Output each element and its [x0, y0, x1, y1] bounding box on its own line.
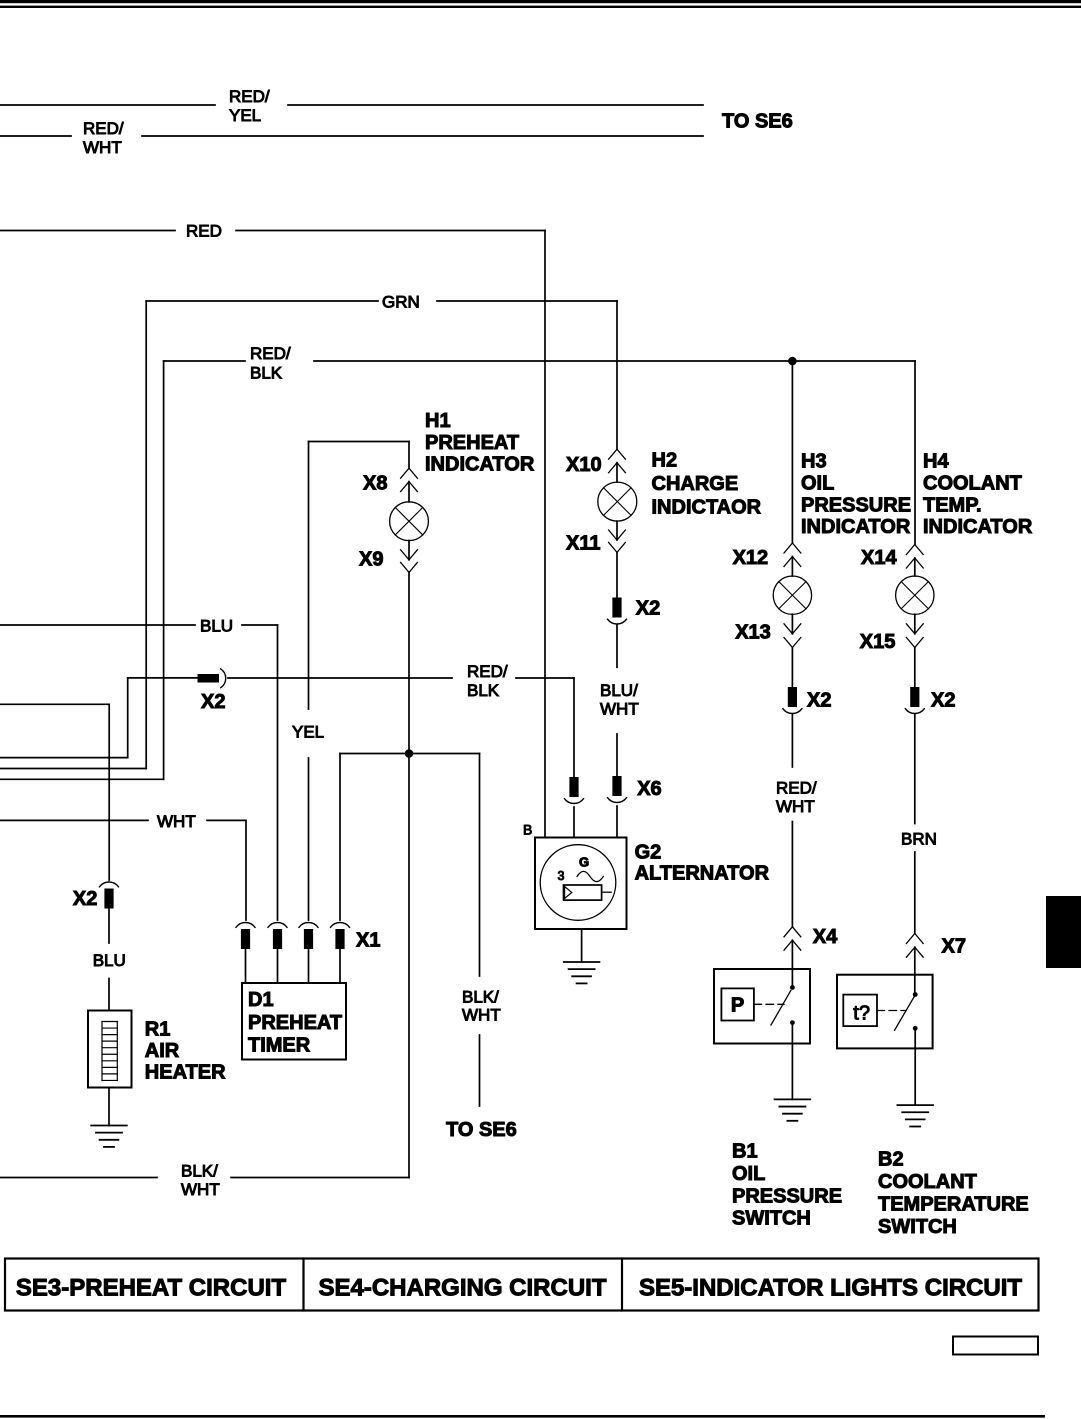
svg-text:X2: X2	[73, 888, 97, 910]
svg-text:COOLANT: COOLANT	[878, 1171, 977, 1193]
svg-text:3: 3	[558, 869, 565, 883]
svg-text:WHT: WHT	[776, 797, 815, 816]
svg-text:G2: G2	[635, 842, 662, 864]
svg-text:ALTERNATOR: ALTERNATOR	[635, 863, 770, 885]
svg-text:TO SE6: TO SE6	[446, 1119, 517, 1141]
svg-text:WHT: WHT	[462, 1006, 501, 1025]
svg-text:BLK/: BLK/	[181, 1162, 218, 1181]
svg-text:CHARGE: CHARGE	[652, 473, 739, 495]
svg-text:SE3-PREHEAT CIRCUIT: SE3-PREHEAT CIRCUIT	[16, 1275, 287, 1302]
svg-text:PRESSURE: PRESSURE	[801, 495, 911, 517]
svg-text:R1: R1	[145, 1019, 171, 1041]
svg-text:BLU: BLU	[93, 951, 126, 970]
svg-text:WHT: WHT	[83, 138, 122, 157]
svg-text:B1: B1	[732, 1141, 758, 1163]
svg-text:INDICTAOR: INDICTAOR	[652, 497, 762, 519]
svg-text:X7: X7	[942, 936, 966, 958]
svg-text:X14: X14	[861, 547, 897, 569]
svg-text:BRN: BRN	[901, 830, 937, 849]
svg-text:G: G	[579, 855, 589, 870]
svg-text:X4: X4	[813, 926, 838, 948]
svg-text:RED: RED	[186, 222, 222, 241]
svg-text:X2: X2	[807, 690, 831, 712]
svg-text:WHT: WHT	[600, 700, 639, 719]
svg-text:X15: X15	[860, 631, 896, 653]
svg-text:X10: X10	[566, 454, 602, 476]
svg-text:BLK/: BLK/	[462, 988, 499, 1007]
svg-text:X8: X8	[363, 473, 387, 495]
svg-text:TO SE6: TO SE6	[722, 111, 793, 133]
svg-text:TEMPERATURE: TEMPERATURE	[878, 1194, 1029, 1216]
svg-text:YEL: YEL	[292, 723, 324, 742]
svg-text:TIMER: TIMER	[248, 1035, 311, 1057]
svg-text:X6: X6	[637, 778, 661, 800]
svg-text:SWITCH: SWITCH	[878, 1216, 957, 1238]
svg-text:OIL: OIL	[732, 1163, 765, 1185]
svg-text:X2: X2	[636, 598, 660, 620]
svg-text:X2: X2	[201, 691, 225, 713]
svg-text:t?: t?	[853, 1003, 870, 1025]
svg-text:H1: H1	[425, 410, 451, 432]
svg-text:P: P	[731, 995, 744, 1017]
svg-text:RED/: RED/	[83, 119, 124, 138]
svg-text:RED/: RED/	[776, 779, 817, 798]
svg-text:AIR: AIR	[145, 1040, 180, 1062]
svg-text:SWITCH: SWITCH	[732, 1208, 811, 1230]
svg-text:B: B	[523, 822, 532, 838]
svg-text:BLK: BLK	[467, 681, 500, 700]
svg-text:D1: D1	[248, 989, 274, 1011]
svg-text:SE4-CHARGING CIRCUIT: SE4-CHARGING CIRCUIT	[318, 1275, 606, 1302]
svg-text:PRESSURE: PRESSURE	[732, 1186, 842, 1208]
svg-text:PREHEAT: PREHEAT	[425, 432, 519, 454]
svg-text:OIL: OIL	[801, 473, 834, 495]
svg-text:RED/: RED/	[467, 662, 508, 681]
svg-text:INDICATOR: INDICATOR	[923, 516, 1033, 538]
svg-text:TEMP.: TEMP.	[923, 495, 982, 517]
svg-text:SE5-INDICATOR LIGHTS CIRCUIT: SE5-INDICATOR LIGHTS CIRCUIT	[639, 1275, 1022, 1302]
svg-text:H2: H2	[652, 450, 678, 472]
svg-text:INDICATOR: INDICATOR	[425, 454, 535, 476]
svg-text:INDICATOR: INDICATOR	[801, 516, 911, 538]
svg-text:RED/: RED/	[250, 344, 291, 363]
svg-text:B2: B2	[878, 1149, 904, 1171]
svg-text:X11: X11	[566, 533, 600, 555]
svg-text:RED/: RED/	[229, 87, 270, 106]
svg-text:WHT: WHT	[157, 812, 196, 831]
svg-text:X2: X2	[931, 690, 955, 712]
svg-text:PREHEAT: PREHEAT	[248, 1012, 342, 1034]
svg-text:GRN: GRN	[382, 293, 420, 312]
svg-text:WHT: WHT	[181, 1180, 220, 1199]
svg-text:H3: H3	[801, 451, 827, 473]
svg-text:YEL: YEL	[229, 106, 261, 125]
svg-text:X13: X13	[735, 622, 771, 644]
svg-text:X9: X9	[359, 549, 383, 571]
svg-text:X1: X1	[356, 930, 380, 952]
svg-text:BLU/: BLU/	[600, 681, 638, 700]
svg-text:HEATER: HEATER	[145, 1062, 226, 1084]
svg-text:COOLANT: COOLANT	[923, 473, 1022, 495]
svg-text:BLU: BLU	[200, 617, 233, 636]
svg-text:H4: H4	[923, 451, 949, 473]
svg-text:X12: X12	[733, 547, 769, 569]
svg-text:BLK: BLK	[250, 364, 283, 383]
